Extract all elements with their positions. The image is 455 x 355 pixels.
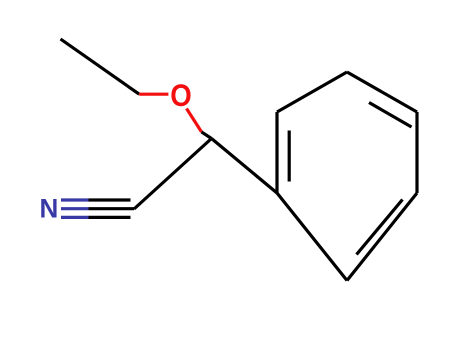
svg-text:N: N: [40, 193, 59, 223]
svg-text:O: O: [170, 77, 192, 113]
